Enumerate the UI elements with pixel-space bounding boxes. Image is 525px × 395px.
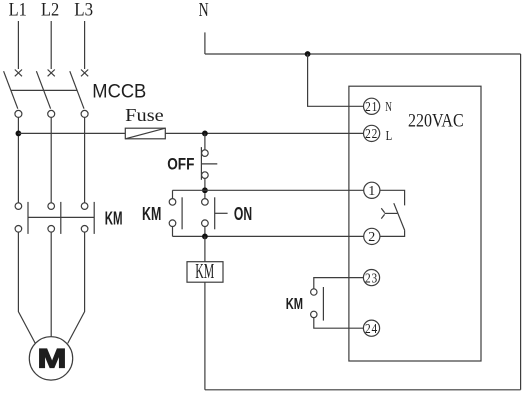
internal switch spring chevron: [381, 208, 384, 218]
node N branch junction: [305, 51, 311, 57]
motor M circle: [29, 337, 72, 380]
svg-text:22: 22: [365, 127, 378, 142]
contactor KM main linkage: [28, 216, 94, 218]
wire KM aux branch top: [172, 190, 174, 198]
svg-text:ON: ON: [234, 204, 252, 224]
wire L1 drop: [17, 21, 19, 69]
contactor KM main pole3 top contact: [81, 203, 88, 210]
internal relay switch blade: [394, 203, 405, 230]
fuse FU body: [125, 128, 165, 139]
pushbutton ON bottom contact: [202, 220, 209, 227]
svg-text:Fuse: Fuse: [125, 105, 164, 125]
wire KM aux branch bottom: [172, 227, 174, 237]
terminal 24 circle: [363, 320, 379, 336]
wire N branch to terminal 21: [308, 54, 364, 106]
wire coil to bottom return: [204, 282, 206, 390]
svg-text:KM: KM: [286, 296, 303, 313]
wire contactor pole1 to motor: [18, 232, 35, 343]
wire N top run: [205, 53, 521, 55]
terminal 2 circle: [364, 228, 380, 244]
svg-text:MCCB: MCCB: [92, 81, 146, 102]
wire ON branch top: [204, 193, 206, 199]
svg-text:L: L: [386, 128, 393, 143]
breaker QF pole3 blade: [70, 71, 84, 109]
svg-text:L2: L2: [41, 0, 59, 20]
coil KM body: [187, 262, 223, 283]
svg-text:L3: L3: [74, 0, 93, 20]
node A junction above OFF: [202, 131, 208, 137]
contactor KM main pole2 bottom contact: [48, 226, 55, 233]
terminal 21 circle: [364, 98, 380, 114]
svg-text:1: 1: [368, 184, 375, 199]
wire L1 to contactor: [17, 117, 19, 202]
wire node C to coil: [204, 236, 206, 261]
node control tap on L1: [16, 131, 22, 137]
contact KM feedback top circle: [311, 289, 317, 295]
node C junction above coil: [202, 234, 208, 240]
contactor KM main pole1 bottom contact: [15, 226, 22, 233]
svg-text:2: 2: [368, 230, 375, 245]
contact KM aux bottom circle: [169, 220, 176, 227]
terminal 1 circle: [364, 182, 380, 198]
contactor KM main pole2 top contact: [48, 203, 55, 210]
contactor KM main pole2 bar: [60, 202, 62, 234]
wire KM contact to terminal 24: [314, 318, 364, 329]
wire rail2 to terminal 2: [173, 235, 364, 237]
breaker QF pole3 contact circle: [81, 110, 88, 117]
wire junction A to OFF button: [204, 133, 206, 150]
svg-text:KM: KM: [105, 209, 123, 229]
node B junction below OFF: [202, 187, 208, 193]
pushbutton ON stem: [215, 212, 228, 214]
wire contactor pole2 to motor: [50, 232, 52, 337]
svg-text:24: 24: [365, 322, 378, 337]
svg-text:KM: KM: [195, 260, 214, 283]
breaker QF pole1 blade: [4, 71, 18, 109]
breaker QF pole2 blade: [36, 71, 50, 109]
terminal 23 circle: [363, 270, 379, 286]
contact KM aux top circle: [169, 199, 176, 206]
contact KM aux bar: [181, 197, 183, 229]
breaker QF pole2 contact circle: [48, 110, 55, 117]
svg-text:M: M: [38, 343, 67, 373]
pushbutton ON bridge bar: [214, 197, 216, 229]
controller box outline: [349, 86, 481, 361]
breaker QF pole3 cross mark: [81, 70, 88, 77]
contact KM feedback bottom circle: [311, 311, 317, 317]
pushbutton OFF stem: [201, 163, 217, 165]
terminal 22 circle: [364, 125, 380, 141]
wire L2 to contactor: [50, 117, 52, 202]
pushbutton OFF bridge bar: [200, 147, 202, 180]
contactor KM main pole3 bar: [93, 202, 95, 234]
breaker QF pole2 cross mark: [48, 70, 55, 77]
fuse FU diagonal: [125, 128, 165, 139]
contactor KM main pole1 bar: [27, 202, 29, 234]
wire ON branch bottom: [204, 227, 206, 237]
wire internal switch to terminal 2: [380, 230, 405, 236]
wire control bus to fuse: [18, 132, 125, 134]
wire L3 drop: [84, 21, 86, 69]
wire L3 to contactor: [84, 117, 86, 202]
svg-text:21: 21: [365, 100, 378, 115]
contact KM feedback bar: [322, 287, 324, 321]
wire rail node B to terminal 1: [173, 189, 364, 191]
breaker QF linkage bar: [11, 89, 78, 91]
wire fuse to terminal 22: [165, 132, 363, 134]
svg-text:N: N: [385, 99, 392, 114]
wire N right side drop: [520, 54, 522, 390]
wire terminal 23 to KM contact: [314, 278, 364, 289]
svg-text:KM: KM: [142, 204, 161, 224]
breaker QF pole1 contact circle: [15, 110, 22, 117]
wire N drop: [204, 32, 206, 54]
wire OFF to node B: [204, 178, 206, 190]
pushbutton ON top contact: [202, 199, 209, 206]
contactor KM main pole1 top contact: [15, 203, 22, 210]
contactor KM main pole3 bottom contact: [81, 226, 88, 233]
breaker QF pole1 cross mark: [15, 70, 22, 77]
svg-text:23: 23: [365, 271, 378, 286]
wire contactor pole3 to motor: [68, 232, 85, 343]
pushbutton OFF top contact: [202, 150, 209, 157]
wire bottom return: [205, 389, 521, 391]
svg-text:N: N: [199, 0, 209, 21]
svg-text:220VAC: 220VAC: [408, 111, 464, 132]
svg-text:OFF: OFF: [167, 154, 194, 173]
internal switch actuator: [385, 212, 398, 214]
wire terminal 1 to internal switch: [380, 190, 405, 205]
svg-text:L1: L1: [9, 0, 27, 20]
wire L2 drop: [50, 21, 52, 69]
pushbutton OFF bottom contact: [202, 172, 209, 179]
